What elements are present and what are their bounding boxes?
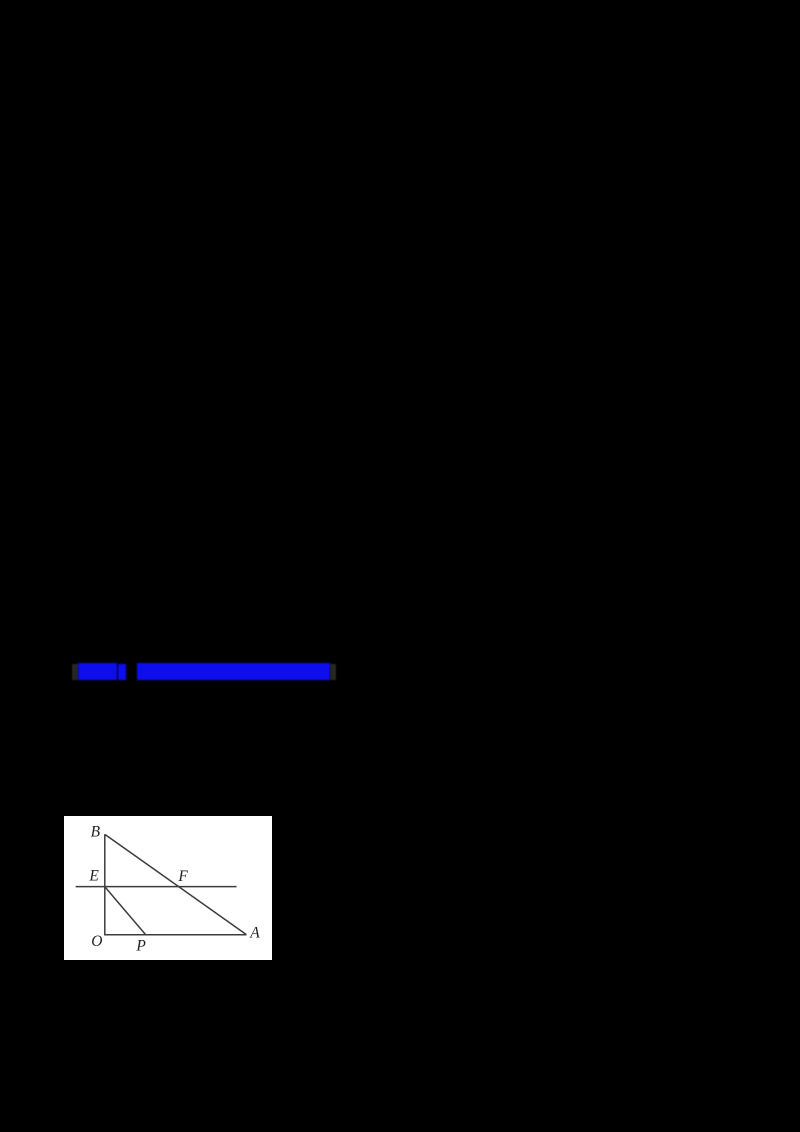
wire: segment E-P [105,887,146,935]
svg-text:A: A [249,925,260,942]
wire: hypotenuse B-F-A [105,834,246,934]
wire: horizontal line through E and F [75,885,236,887]
highlighted answer line (blue bold text on black) [72,664,78,681]
wire: bottom segment O-P-A [104,934,246,936]
wire: vertical segment B-E-O [104,834,106,935]
svg-text:O: O [91,933,102,950]
svg-text:B: B [90,824,100,841]
svg-text:P: P [135,937,146,954]
svg-text:F: F [177,868,188,885]
figure box: white panel with geometry diagram [64,816,272,960]
svg-text:E: E [88,867,99,884]
